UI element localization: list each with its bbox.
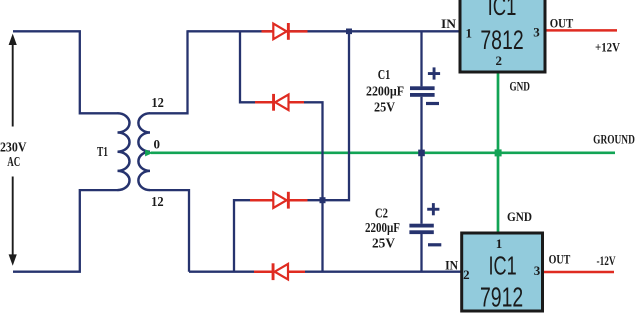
svg-text:2: 2 (496, 53, 503, 68)
svg-text:2200µF: 2200µF (366, 84, 404, 99)
svg-text:IN: IN (445, 258, 459, 273)
svg-text:T1: T1 (97, 144, 108, 159)
svg-text:GROUND: GROUND (593, 131, 635, 146)
svg-text:IC1: IC1 (489, 250, 517, 280)
svg-text:25V: 25V (372, 236, 395, 251)
svg-text:230V: 230V (0, 140, 27, 155)
svg-text:OUT: OUT (550, 16, 574, 31)
svg-text:25V: 25V (374, 99, 395, 114)
svg-text:IC1: IC1 (488, 0, 517, 21)
svg-text:3: 3 (533, 24, 540, 39)
svg-text:GND: GND (509, 79, 530, 94)
svg-text:2: 2 (463, 267, 470, 282)
svg-text:0: 0 (154, 137, 161, 152)
svg-text:1: 1 (496, 236, 503, 251)
svg-text:C2: C2 (375, 206, 388, 221)
svg-text:3: 3 (534, 263, 541, 278)
svg-text:+12V: +12V (595, 40, 621, 55)
svg-text:GND: GND (507, 209, 532, 224)
svg-text:AC: AC (7, 154, 20, 169)
svg-text:2200µF: 2200µF (365, 220, 400, 235)
svg-text:12: 12 (151, 96, 164, 111)
svg-text:OUT: OUT (549, 252, 571, 267)
svg-text:-12V: -12V (597, 253, 616, 268)
svg-text:C1: C1 (378, 67, 391, 82)
svg-text:12: 12 (151, 195, 164, 210)
svg-text:7812: 7812 (480, 25, 523, 55)
svg-text:IN: IN (441, 16, 457, 31)
svg-text:1: 1 (466, 26, 473, 41)
svg-text:7912: 7912 (480, 281, 523, 312)
